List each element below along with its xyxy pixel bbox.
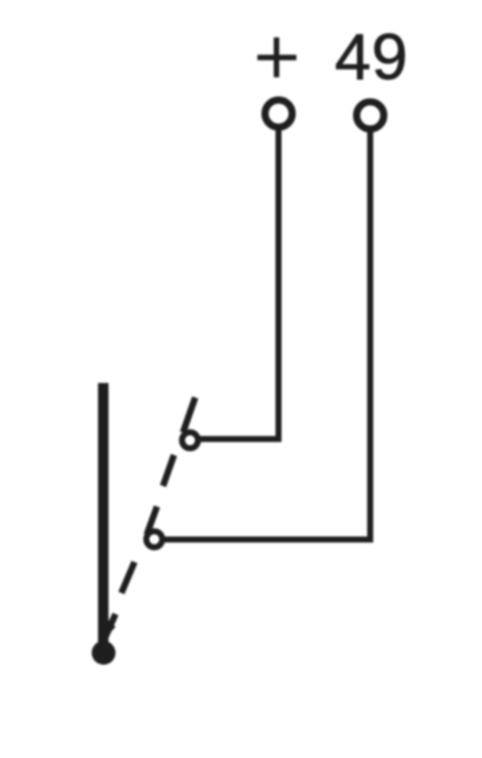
svg-text:49: 49 bbox=[335, 20, 408, 93]
